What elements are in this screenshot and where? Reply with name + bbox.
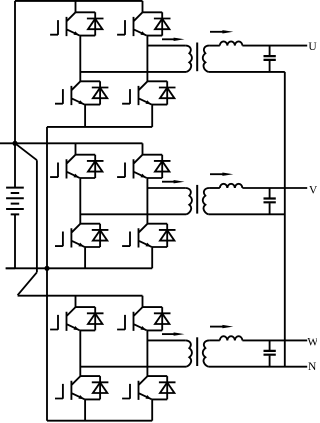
IGBT Q5 bbox=[50, 155, 95, 179]
diode of Q2 bbox=[154, 12, 171, 35]
wire: top bus to Q10 collector bbox=[142, 296, 144, 307]
svg-text:U: U bbox=[308, 41, 317, 53]
current arrow to filter W bbox=[210, 325, 233, 328]
node: battery negative junction bbox=[44, 266, 49, 271]
transformer T3 core bbox=[196, 337, 198, 366]
transformer T1 core bbox=[196, 43, 198, 72]
current arrow to filter V bbox=[210, 173, 233, 176]
wire: left leg of bridge 3 bbox=[79, 330, 81, 376]
transformer T2 secondary winding bbox=[203, 188, 210, 214]
filter inductor L1 bbox=[220, 41, 243, 45]
current arrow into T3 primary bbox=[162, 332, 185, 335]
filter capacitor C2 bbox=[264, 188, 276, 214]
wire: Q12 emitter to DC- bus bbox=[151, 399, 153, 421]
diode of Q8 bbox=[159, 224, 176, 247]
IGBT Q6 bbox=[117, 155, 162, 179]
cell 1 DC- bottom bus bbox=[47, 126, 152, 128]
wire: battery negative stub bbox=[6, 267, 15, 269]
transformer T3 primary winding bbox=[185, 340, 192, 366]
filter capacitor C1 bbox=[264, 46, 276, 72]
IGBT Q2 bbox=[117, 12, 162, 36]
diode of Q11 bbox=[92, 376, 109, 399]
wire: right leg of bridge 3 bbox=[146, 330, 148, 376]
wire: inductor L3 to output W bbox=[242, 339, 307, 341]
cell 3 DC+ top bus bbox=[18, 295, 143, 297]
wire: T3 secondary bottom return bbox=[208, 366, 307, 368]
transformer T2 primary winding bbox=[185, 188, 192, 214]
wire: T1 secondary top to filter inductor L1 bbox=[209, 45, 219, 47]
diode of Q12 bbox=[159, 376, 176, 399]
diode of Q5 bbox=[87, 155, 104, 178]
wire: right leg of bridge 1 bbox=[146, 36, 148, 82]
wire: right leg of bridge 2 bbox=[146, 178, 148, 224]
IGBT Q4 bbox=[122, 81, 167, 105]
transformer T3 secondary winding bbox=[203, 340, 210, 366]
transformer T1 primary winding bbox=[185, 46, 192, 72]
wire: top bus to Q5 collector bbox=[75, 143, 77, 154]
current arrow into T1 primary bbox=[162, 38, 185, 41]
filter capacitor C3 bbox=[264, 340, 276, 366]
wire: Q3 emitter to DC- bus bbox=[84, 104, 86, 127]
battery BT1 positive lead bbox=[14, 143, 16, 187]
wire: DC+ bypass vertical bbox=[36, 160, 38, 272]
svg-text:V: V bbox=[309, 184, 317, 196]
wire: top bus to Q6 collector bbox=[142, 143, 144, 154]
wire: Q4 emitter to DC- bus bbox=[151, 104, 153, 127]
wire: T2 secondary bottom return bbox=[208, 213, 284, 215]
current arrow into T2 primary bbox=[162, 180, 185, 183]
diode of Q4 bbox=[159, 81, 176, 104]
battery BT1 negative lead bbox=[14, 214, 16, 268]
diode of Q7 bbox=[92, 224, 109, 247]
neutral bus wire N bbox=[284, 72, 286, 366]
IGBT Q9 bbox=[50, 307, 95, 331]
wire: T3 secondary top to filter inductor L3 bbox=[209, 339, 219, 341]
wire: right midpoint to transformer T1 primary top bbox=[147, 45, 185, 47]
wire: left midpoint to transformer T1 primary bottom bbox=[80, 71, 186, 73]
wire: right midpoint to transformer T3 primary top bbox=[147, 339, 185, 341]
wire: Q11 emitter to DC- bus bbox=[84, 399, 86, 421]
wire: cell 1 DC- return to battery negative bbox=[46, 127, 48, 268]
IGBT Q3 bbox=[55, 81, 100, 105]
IGBT Q12 bbox=[122, 376, 167, 400]
diode of Q1 bbox=[87, 12, 104, 35]
cell 2 DC- bottom bus bbox=[6, 267, 153, 269]
wire: DC+ bypass diagonal from battery positive bbox=[15, 143, 37, 160]
cell 1 DC+ top bus bbox=[15, 0, 143, 2]
current arrow to filter U bbox=[210, 30, 233, 33]
filter inductor L2 bbox=[220, 184, 243, 188]
filter inductor L3 bbox=[220, 336, 243, 340]
IGBT Q7 bbox=[55, 224, 100, 248]
wire: top bus to Q9 collector bbox=[75, 296, 77, 307]
transformer T1 secondary winding bbox=[203, 46, 210, 72]
wire: Q8 emitter to DC- bus bbox=[151, 247, 153, 268]
wire: top bus to Q1 collector bbox=[75, 1, 77, 12]
wire: T2 secondary top to filter inductor L2 bbox=[209, 187, 219, 189]
wire: inductor L1 to output U bbox=[242, 45, 307, 47]
diode of Q3 bbox=[92, 81, 109, 104]
IGBT Q8 bbox=[122, 224, 167, 248]
wire: inductor L2 to output V bbox=[242, 187, 307, 189]
wire: right midpoint to transformer T2 primary top bbox=[147, 187, 185, 189]
wire: battery negative down to cell 3 DC- bus bbox=[46, 268, 48, 420]
left DC+ bus wire bbox=[14, 1, 16, 143]
cell 3 DC- bottom bus bbox=[47, 420, 152, 422]
cell 2 DC+ top bus bbox=[0, 142, 143, 144]
node: battery positive junction bbox=[12, 141, 17, 146]
diode of Q9 bbox=[87, 307, 104, 330]
svg-text:W: W bbox=[307, 337, 317, 349]
wire: Q7 emitter to DC- bus bbox=[84, 247, 86, 268]
wire: left midpoint to transformer T2 primary bottom bbox=[80, 213, 186, 215]
wire: DC+ bypass diagonal to cell 3 bus bbox=[18, 272, 37, 295]
wire: T1 secondary bottom return bbox=[208, 71, 284, 73]
diode of Q10 bbox=[154, 307, 171, 330]
wire: left leg of bridge 1 bbox=[79, 36, 81, 82]
battery BT1 plates bbox=[6, 188, 24, 215]
diode of Q6 bbox=[154, 155, 171, 178]
IGBT Q10 bbox=[117, 307, 162, 331]
transformer T2 core bbox=[196, 185, 198, 214]
wire: left midpoint to transformer T3 primary bottom bbox=[80, 366, 186, 368]
IGBT Q1 bbox=[50, 12, 95, 36]
wire: left leg of bridge 2 bbox=[79, 178, 81, 224]
IGBT Q11 bbox=[55, 376, 100, 400]
wire: top bus to Q2 collector bbox=[142, 1, 144, 12]
svg-text:N: N bbox=[308, 361, 317, 373]
